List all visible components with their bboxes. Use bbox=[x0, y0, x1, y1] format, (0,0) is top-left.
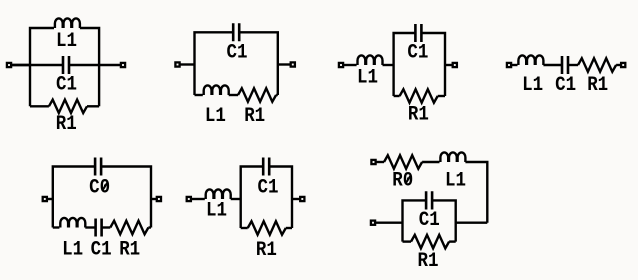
wire bottom right bbox=[276, 94, 278, 96]
wire mid stub right bbox=[456, 221, 488, 223]
wire left stub bbox=[47, 198, 53, 200]
svg-text:L1: L1 bbox=[522, 74, 543, 97]
terminal right (circuit 1) bbox=[121, 63, 125, 67]
svg-text:L1: L1 bbox=[56, 30, 77, 53]
wire left rail + top wire left bbox=[53, 167, 95, 228]
wire C1 to R1 bbox=[102, 226, 111, 228]
wire mid left bbox=[11, 64, 63, 66]
terminal left (circuit 5) bbox=[43, 197, 47, 201]
svg-text:R1: R1 bbox=[119, 239, 140, 262]
terminal left (circuit 2) bbox=[175, 62, 179, 66]
inductor L1 (circuit 3) bbox=[358, 55, 383, 65]
svg-text:C1: C1 bbox=[91, 239, 112, 262]
wire bottom left bbox=[394, 95, 400, 97]
svg-text:L1: L1 bbox=[205, 105, 226, 128]
wire left rail + top wire left bbox=[241, 167, 264, 229]
wire bottom right bbox=[286, 227, 292, 229]
resistor R0 (circuit 7) bbox=[384, 155, 422, 168]
wire right + down to block bbox=[465, 162, 487, 223]
terminal left (circuit 1) bbox=[7, 63, 11, 67]
svg-text:R1: R1 bbox=[256, 239, 277, 262]
wire stub to block bbox=[375, 221, 403, 223]
terminal top left (circuit 7) bbox=[371, 160, 375, 164]
wire bottom left bbox=[195, 94, 203, 96]
wire bottom left bbox=[30, 105, 49, 107]
svg-text:C1: C1 bbox=[407, 41, 428, 64]
svg-text:R1: R1 bbox=[408, 104, 429, 127]
wire left stub bbox=[191, 198, 205, 200]
wire left rail + top wire left bbox=[394, 33, 416, 96]
resistor R1 (circuit 3) bbox=[400, 89, 438, 102]
svg-text:R1: R1 bbox=[56, 113, 77, 136]
terminal right (circuit 5) bbox=[157, 197, 161, 201]
wire C1 to R1 bbox=[568, 64, 578, 66]
wire right stub bbox=[278, 63, 291, 65]
svg-text:L1: L1 bbox=[357, 67, 378, 90]
wire bottom left bbox=[53, 226, 60, 228]
slash of zero in C0 bbox=[102, 182, 107, 191]
svg-text:L1: L1 bbox=[62, 239, 83, 262]
terminal left (circuit 4) bbox=[507, 63, 511, 67]
capacitor C1 (circuit 6) bbox=[263, 158, 269, 176]
terminal left (circuit 3) bbox=[339, 63, 343, 67]
capacitor C1 (circuit 4) bbox=[562, 56, 568, 74]
resistor R1 (circuit 7) bbox=[411, 235, 449, 248]
svg-text:C0: C0 bbox=[89, 177, 110, 200]
wire to block bbox=[231, 198, 241, 200]
wire top right + right rail bbox=[269, 167, 292, 229]
resistor R1 (circuit 2) bbox=[238, 88, 276, 101]
inductor L1 (circuit 7) bbox=[440, 152, 465, 162]
capacitor C1 (circuit 3) bbox=[415, 24, 421, 42]
wire left rail + top wire left bbox=[195, 32, 234, 95]
wire top right + right rail bbox=[421, 33, 445, 96]
wire top right + right rail bbox=[239, 32, 278, 95]
svg-text:L1: L1 bbox=[206, 200, 227, 223]
wire left rail + top wire left bbox=[30, 28, 54, 106]
wire bottom left bbox=[403, 240, 412, 242]
svg-text:C1: C1 bbox=[419, 209, 440, 232]
inductor L1 (circuit 6) bbox=[206, 189, 231, 199]
terminal right (circuit 6) bbox=[300, 197, 304, 201]
wire top right + right rail bbox=[101, 167, 151, 228]
wire to right terminal bbox=[616, 64, 621, 66]
wire stub to R0 bbox=[376, 161, 385, 163]
inductor L1 (circuit 1) bbox=[55, 18, 80, 28]
terminal left (circuit 6) bbox=[187, 197, 191, 201]
svg-text:C1: C1 bbox=[56, 74, 77, 97]
wire right stub bbox=[151, 198, 157, 200]
svg-text:C1: C1 bbox=[227, 42, 248, 65]
wire between L1 and R1 bbox=[229, 94, 238, 96]
svg-text:R1: R1 bbox=[244, 105, 265, 128]
capacitor C1 (circuit 1) bbox=[63, 56, 69, 74]
inductor L1 (circuit 4) bbox=[518, 55, 543, 65]
svg-text:L1: L1 bbox=[445, 170, 466, 193]
wire left rail + top wire left bbox=[403, 200, 427, 241]
slash of zero in R0 bbox=[405, 175, 410, 184]
wire R0 to L1 bbox=[422, 161, 439, 163]
terminal bottom left (circuit 7) bbox=[371, 221, 375, 225]
inductor L1 (circuit 2) bbox=[204, 85, 229, 95]
svg-text:R1: R1 bbox=[587, 74, 608, 97]
wire bottom right bbox=[87, 105, 99, 107]
capacitor C1 (circuit 2) bbox=[233, 23, 239, 41]
resistor R1 (circuit 6) bbox=[248, 221, 286, 234]
capacitor C0 (circuit 5) bbox=[95, 158, 101, 176]
capacitor C1 (circuit 7) bbox=[426, 191, 432, 209]
wire top right + right rail bbox=[80, 28, 99, 106]
inductor L1 (circuit 5) bbox=[60, 218, 85, 228]
capacitor C1 (circuit 5) bbox=[96, 219, 102, 237]
terminal right (circuit 2) bbox=[291, 62, 295, 66]
wire mid right to terminal bbox=[69, 64, 121, 66]
resistor R1 (circuit 4) bbox=[578, 58, 616, 71]
wire bottom left bbox=[241, 227, 248, 229]
wire left stub to left rail bbox=[11, 64, 30, 66]
wire L1 to C1 bbox=[85, 226, 95, 228]
terminal right (circuit 4) bbox=[621, 63, 625, 67]
wire bottom right bbox=[148, 226, 151, 228]
wire top right + right rail bbox=[432, 200, 456, 241]
resistor R1 (circuit 5) bbox=[110, 221, 148, 234]
svg-text:R1: R1 bbox=[418, 250, 439, 273]
resistor R1 (circuit 1) bbox=[49, 100, 87, 113]
wire L1 to C1 bbox=[543, 64, 562, 66]
wire left stub bbox=[343, 64, 357, 66]
svg-text:C1: C1 bbox=[258, 177, 279, 200]
wire right stub bbox=[292, 198, 300, 200]
svg-text:R0: R0 bbox=[392, 170, 413, 193]
wire stub bbox=[511, 64, 518, 66]
wire left stub bbox=[180, 63, 195, 65]
wire bottom right bbox=[449, 240, 456, 242]
svg-text:C1: C1 bbox=[555, 74, 576, 97]
terminal right (circuit 3) bbox=[453, 63, 457, 67]
wire bottom right bbox=[438, 95, 445, 97]
wire right stub bbox=[445, 64, 453, 66]
wire to block bbox=[383, 64, 394, 66]
